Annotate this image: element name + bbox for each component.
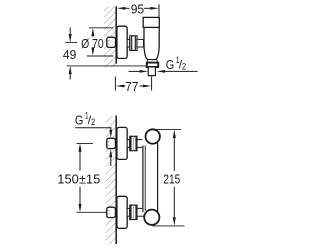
- top neck 2 (front view): [137, 140, 144, 148]
- bottom knob circle (front view): [144, 210, 159, 225]
- wall hatch (top view): [104, 6, 116, 67]
- supply pipe square in wall (top view): [107, 37, 116, 47]
- svg-text:49: 49: [63, 47, 76, 62]
- G 1/2 callout (front view): [75, 111, 112, 166]
- bar highlight line (front view): [144, 145, 146, 211]
- svg-text:G: G: [75, 112, 84, 127]
- bottom neck (front view): [127, 208, 130, 216]
- neck 2 (top view): [137, 39, 144, 47]
- bottom hex nut (front view): [130, 205, 137, 219]
- dimension 215: [163, 130, 180, 226]
- connector neck (top view): [127, 39, 130, 47]
- wall hatch (front view): [106, 116, 117, 245]
- dimension 49: [63, 27, 76, 79]
- top hex nut (front view): [130, 136, 137, 150]
- svg-text:2: 2: [91, 117, 95, 128]
- valve body (top view): [144, 27, 159, 59]
- svg-text:G: G: [166, 57, 175, 72]
- dimension 95: [117, 2, 159, 17]
- dimension Ø70 extension lines: [89, 27, 114, 29]
- top escutcheon (front view): [117, 127, 127, 159]
- bottom neck 2 (front view): [137, 208, 144, 216]
- escutcheon edge view (top view): [117, 26, 127, 58]
- wall face line (front view): [115, 116, 117, 245]
- top knob circle (front view): [146, 129, 160, 143]
- top neck (front view): [127, 140, 130, 148]
- dimension 49 top extension + bottom extension: [65, 41, 77, 43]
- bar left edge (front view): [142, 145, 144, 212]
- top supply square (front view): [107, 138, 116, 148]
- svg-text:150±15: 150±15: [57, 172, 100, 187]
- outlet tube G1/2 (top view): [148, 67, 155, 76]
- svg-text:95: 95: [131, 2, 144, 17]
- dimension 150±15 extension lines: [77, 142, 94, 144]
- svg-text:215: 215: [163, 172, 180, 187]
- wall face line (top view): [115, 6, 117, 63]
- bar right edge (front view): [157, 143, 159, 213]
- hex nut (top view): [130, 36, 137, 51]
- svg-text:2: 2: [182, 61, 186, 72]
- valve cap / handle (top view): [143, 17, 159, 27]
- bottom supply square (front view): [107, 207, 116, 217]
- dimension Ø70: [81, 28, 104, 56]
- outlet ring nut (top view): [147, 63, 158, 67]
- G 1/2 callout (top view): [129, 55, 198, 73]
- dimension 77: [115, 77, 151, 95]
- bottom escutcheon (front view): [117, 196, 127, 228]
- svg-text:77: 77: [125, 79, 138, 94]
- vertical bar body mask (front view): [142, 139, 158, 215]
- dimension 215 extension lines: [155, 128, 182, 130]
- dimension 150±15: [57, 143, 100, 212]
- outlet washer (top view): [148, 60, 158, 63]
